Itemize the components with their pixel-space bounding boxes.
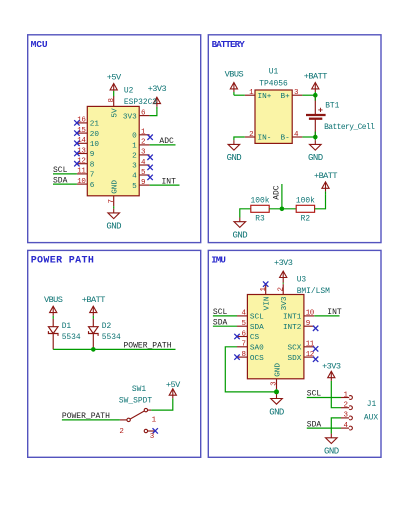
svg-text:100k: 100k — [296, 196, 315, 205]
svg-text:8: 8 — [90, 161, 95, 169]
svg-text:INT: INT — [327, 308, 342, 317]
svg-text:3: 3 — [132, 163, 137, 171]
svg-text:7: 7 — [108, 199, 116, 203]
svg-text:GND: GND — [269, 407, 284, 417]
svg-text:+: + — [318, 105, 323, 115]
svg-text:+BATT: +BATT — [314, 171, 337, 181]
svg-text:B-: B- — [280, 135, 289, 143]
svg-text:CS: CS — [250, 334, 260, 342]
svg-text:BT1: BT1 — [325, 102, 339, 111]
svg-text:3V3: 3V3 — [281, 296, 289, 310]
svg-text:10: 10 — [90, 141, 100, 149]
svg-text:8: 8 — [241, 351, 245, 359]
svg-text:MCU: MCU — [31, 39, 48, 50]
svg-text:1: 1 — [132, 143, 137, 151]
svg-text:INT: INT — [162, 177, 177, 186]
svg-text:11: 11 — [77, 168, 86, 176]
svg-text:5534: 5534 — [102, 333, 121, 342]
svg-text:ADC: ADC — [159, 137, 174, 146]
svg-text:SDA: SDA — [213, 318, 228, 327]
svg-text:12: 12 — [306, 351, 314, 359]
svg-text:TP4056: TP4056 — [259, 80, 288, 89]
svg-text:D1: D1 — [62, 322, 72, 331]
svg-text:10: 10 — [306, 310, 315, 318]
svg-text:GND: GND — [112, 180, 120, 194]
svg-text:2: 2 — [343, 402, 347, 410]
svg-text:SDX: SDX — [288, 355, 302, 363]
svg-text:SA0: SA0 — [250, 345, 264, 353]
svg-text:GND: GND — [324, 447, 339, 457]
svg-text:INT1: INT1 — [283, 314, 302, 322]
svg-text:21: 21 — [90, 121, 100, 129]
svg-text:U3: U3 — [297, 276, 307, 285]
svg-text:0: 0 — [132, 133, 137, 141]
svg-text:VBUS: VBUS — [225, 70, 244, 80]
svg-text:GND: GND — [274, 363, 282, 377]
svg-text:+3V3: +3V3 — [322, 361, 341, 371]
svg-text:2: 2 — [132, 153, 137, 161]
svg-text:IN+: IN+ — [258, 93, 272, 101]
svg-text:SW_SPDT: SW_SPDT — [119, 397, 152, 406]
svg-text:D2: D2 — [102, 322, 112, 331]
svg-text:5V: 5V — [112, 108, 120, 118]
svg-text:+3V3: +3V3 — [274, 258, 293, 268]
svg-text:SCL: SCL — [213, 308, 228, 317]
svg-text:9: 9 — [306, 320, 310, 328]
svg-text:5: 5 — [132, 183, 137, 191]
svg-text:+5V: +5V — [107, 73, 122, 83]
svg-text:R2: R2 — [301, 215, 311, 224]
svg-text:BMI/LSM: BMI/LSM — [297, 287, 330, 296]
svg-text:SCX: SCX — [288, 345, 302, 353]
svg-text:SDA: SDA — [307, 420, 322, 429]
svg-text:7: 7 — [90, 172, 95, 180]
svg-text:SDA: SDA — [250, 324, 264, 332]
svg-text:2: 2 — [141, 139, 145, 147]
svg-text:VBUS: VBUS — [44, 295, 63, 305]
svg-text:POWER_PATH: POWER_PATH — [124, 342, 172, 351]
svg-text:9: 9 — [141, 179, 145, 187]
svg-text:5534: 5534 — [62, 333, 81, 342]
svg-text:SCL: SCL — [307, 390, 322, 399]
svg-text:2: 2 — [277, 287, 285, 291]
svg-text:U2: U2 — [124, 86, 134, 95]
svg-text:9: 9 — [90, 151, 95, 159]
svg-text:GND: GND — [233, 231, 248, 241]
svg-text:100k: 100k — [251, 196, 270, 205]
svg-text:SCL: SCL — [53, 166, 68, 175]
svg-text:AUX: AUX — [364, 414, 378, 423]
svg-text:8: 8 — [108, 98, 116, 102]
svg-text:+BATT: +BATT — [304, 72, 327, 82]
svg-text:ESP32C3: ESP32C3 — [124, 98, 157, 107]
svg-text:J1: J1 — [367, 400, 377, 409]
svg-text:10: 10 — [77, 178, 86, 186]
svg-text:2: 2 — [119, 428, 123, 436]
svg-text:GND: GND — [106, 222, 121, 232]
svg-text:BATTERY: BATTERY — [212, 39, 246, 50]
svg-text:+5V: +5V — [166, 380, 181, 390]
svg-text:Battery_Cell: Battery_Cell — [324, 123, 375, 132]
svg-text:6: 6 — [90, 182, 95, 190]
svg-text:20: 20 — [90, 131, 100, 139]
svg-text:R3: R3 — [255, 215, 265, 224]
svg-text:GND: GND — [227, 153, 242, 163]
svg-text:2: 2 — [249, 131, 253, 139]
svg-text:IMU: IMU — [211, 255, 225, 266]
svg-text:VIN: VIN — [264, 297, 272, 311]
svg-text:SDA: SDA — [53, 176, 68, 185]
svg-text:SW1: SW1 — [132, 385, 146, 394]
svg-text:SCL: SCL — [250, 314, 264, 322]
svg-text:U1: U1 — [269, 68, 279, 77]
svg-text:POWER PATH: POWER PATH — [31, 256, 95, 267]
svg-text:OCS: OCS — [250, 355, 264, 363]
svg-text:+BATT: +BATT — [82, 295, 105, 305]
svg-text:ADC: ADC — [272, 185, 281, 200]
svg-text:4: 4 — [132, 173, 137, 181]
svg-text:B+: B+ — [280, 93, 290, 101]
svg-text:GND: GND — [308, 153, 323, 163]
svg-text:INT2: INT2 — [283, 324, 302, 332]
svg-text:IN-: IN- — [258, 135, 272, 143]
svg-text:3V3: 3V3 — [123, 113, 137, 121]
svg-text:7: 7 — [241, 341, 245, 349]
svg-text:+3V3: +3V3 — [148, 84, 167, 94]
